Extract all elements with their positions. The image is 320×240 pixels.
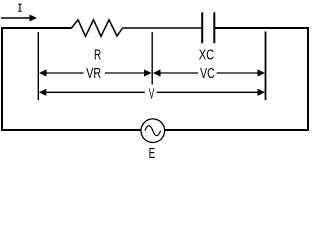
node line: right measurement terminal <box>265 32 267 101</box>
svg-text:R: R <box>94 46 101 62</box>
wire: top-right segment <box>215 27 310 29</box>
VR arrow line right part <box>105 72 146 74</box>
VC arrow line right part <box>217 72 260 74</box>
capacitor XC value label <box>199 46 214 63</box>
VR arrow line left part <box>44 72 84 74</box>
V arrow right head <box>258 89 266 96</box>
current arrow I head <box>30 15 38 22</box>
AC source label E <box>149 145 156 161</box>
node line: center measurement terminal <box>151 32 153 85</box>
current arrow I line <box>1 17 31 19</box>
svg-text:E: E <box>149 145 156 161</box>
VC arrow left head <box>153 69 161 76</box>
VR arrow right head <box>144 69 152 76</box>
VR arrow left head <box>39 69 47 76</box>
VC label <box>200 66 214 82</box>
wire: right side <box>307 27 309 131</box>
resistor R <box>72 20 123 37</box>
current label I <box>18 4 22 11</box>
AC source E circle <box>141 119 165 143</box>
svg-text:V: V <box>149 87 155 102</box>
svg-text:VR: VR <box>86 66 101 82</box>
node line: left measurement terminal <box>37 32 39 100</box>
resistor R value label <box>94 46 101 62</box>
VC arrow right head <box>258 69 266 76</box>
wire: top-left segment <box>1 27 72 29</box>
capacitor XC left plate <box>201 12 203 43</box>
V arrow left head <box>39 89 47 96</box>
wire: bottom-left segment <box>1 129 141 131</box>
wire: top segment between resistor and capacitor <box>123 27 202 29</box>
svg-text:VC: VC <box>200 66 214 82</box>
VR label <box>86 66 101 82</box>
V arrow line left part <box>44 91 145 93</box>
svg-text:XC: XC <box>199 46 214 63</box>
V arrow line right part <box>157 91 260 93</box>
V label <box>149 87 155 102</box>
VC arrow line left part <box>158 72 198 74</box>
AC source sine wave <box>145 126 161 136</box>
wire: left side <box>1 27 3 131</box>
wire: bottom-right segment <box>165 129 309 131</box>
capacitor XC right plate <box>213 12 215 43</box>
